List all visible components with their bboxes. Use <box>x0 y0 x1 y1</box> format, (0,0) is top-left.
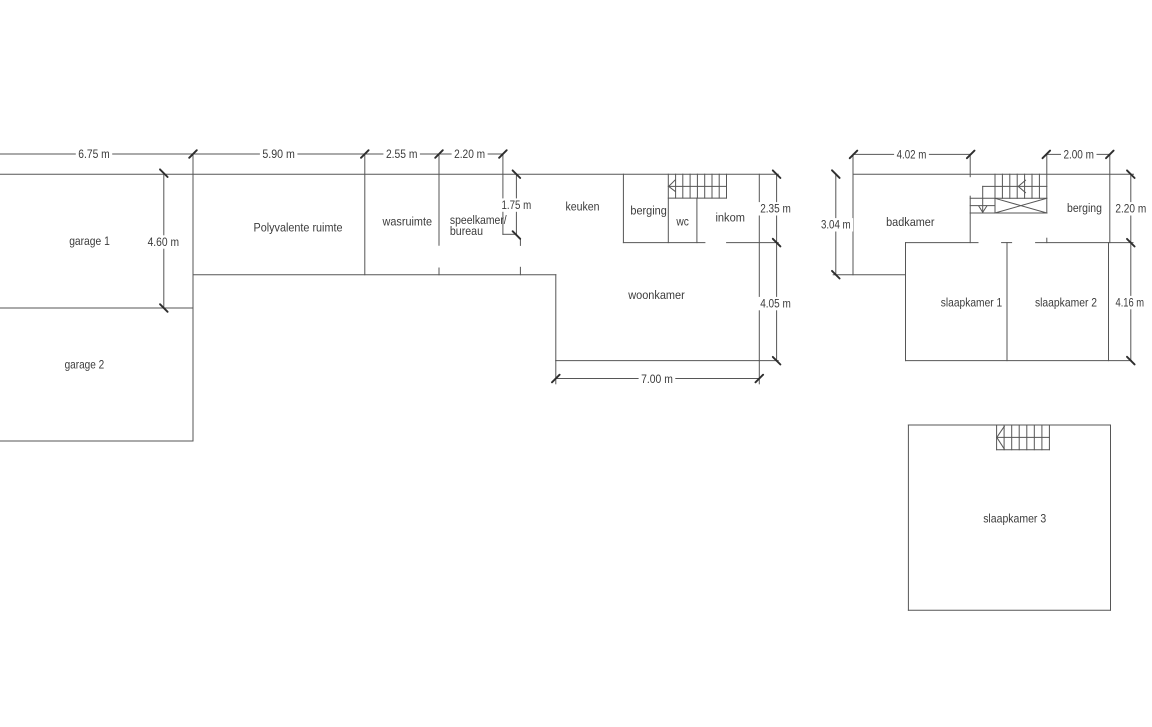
svg-text:2.00 m: 2.00 m <box>1063 148 1094 162</box>
svg-text:7.00 m: 7.00 m <box>641 372 673 386</box>
svg-text:1.75 m: 1.75 m <box>502 198 532 212</box>
svg-text:keuken: keuken <box>565 200 599 214</box>
svg-text:garage 1: garage 1 <box>69 234 110 248</box>
svg-text:2.55 m: 2.55 m <box>386 147 418 161</box>
svg-text:wasruimte: wasruimte <box>382 215 433 229</box>
svg-text:berging: berging <box>630 204 667 218</box>
svg-text:3.04 m: 3.04 m <box>821 218 851 232</box>
svg-text:garage 2: garage 2 <box>65 358 105 372</box>
svg-text:bureau: bureau <box>450 224 483 238</box>
svg-text:berging: berging <box>1067 201 1102 215</box>
svg-text:2.20 m: 2.20 m <box>1115 202 1146 216</box>
svg-text:4.60 m: 4.60 m <box>148 235 179 249</box>
svg-text:slaapkamer 2: slaapkamer 2 <box>1035 296 1097 310</box>
svg-text:4.16 m: 4.16 m <box>1116 296 1145 310</box>
svg-text:6.75 m: 6.75 m <box>78 147 109 161</box>
svg-text:2.20 m: 2.20 m <box>454 147 485 161</box>
svg-text:slaapkamer 3: slaapkamer 3 <box>983 512 1046 526</box>
svg-text:slaapkamer 1: slaapkamer 1 <box>941 296 1003 310</box>
svg-text:badkamer: badkamer <box>886 215 934 229</box>
svg-text:woonkamer: woonkamer <box>627 288 684 302</box>
svg-text:2.35 m: 2.35 m <box>760 202 791 216</box>
svg-text:Polyvalente ruimte: Polyvalente ruimte <box>254 221 343 235</box>
svg-text:5.90 m: 5.90 m <box>262 147 295 161</box>
svg-text:4.02 m: 4.02 m <box>897 148 927 162</box>
svg-text:inkom: inkom <box>715 211 745 225</box>
svg-text:wc: wc <box>676 214 689 228</box>
svg-text:4.05 m: 4.05 m <box>760 297 791 311</box>
